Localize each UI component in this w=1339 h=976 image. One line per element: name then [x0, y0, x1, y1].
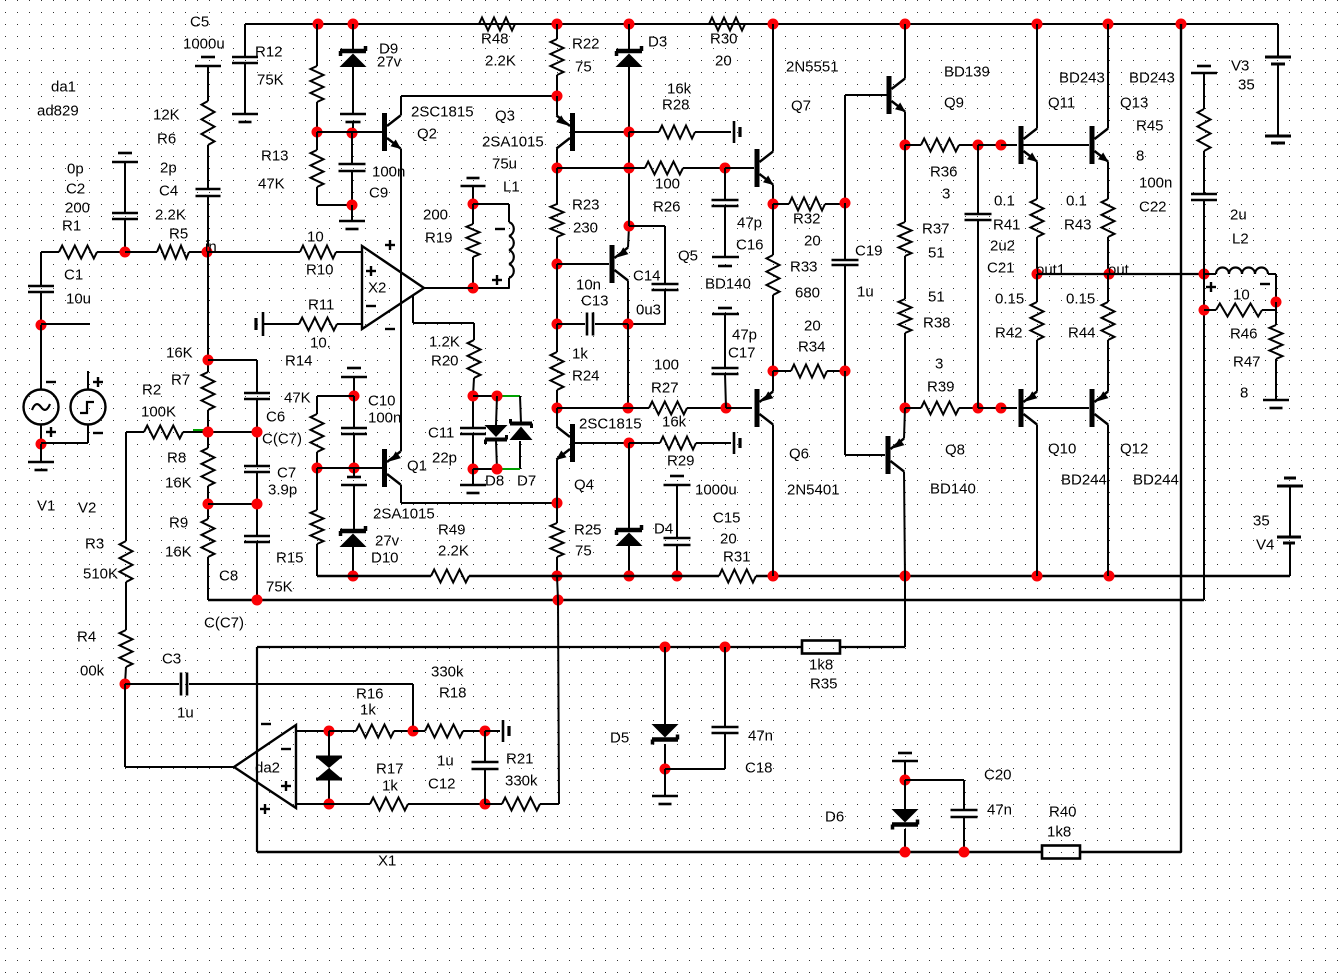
node C6/C7 — [252, 427, 263, 438]
terminal cap R28 — [734, 121, 740, 143]
junction top rail / R22 — [552, 19, 563, 30]
wire D8 top link — [473, 395, 497, 397]
wire D7 bottom lead — [519, 441, 521, 469]
minus sign da2 outer — [261, 723, 271, 725]
wire C19 top — [844, 203, 846, 260]
svg-text:0.15: 0.15 — [995, 291, 1024, 308]
label R40 — [1049, 804, 1077, 821]
svg-text:C13: C13 — [581, 293, 609, 310]
resistor R1 — [59, 246, 97, 259]
node R36/R37 — [900, 140, 911, 151]
green wire bottom — [497, 468, 520, 470]
polarized cap below D9 — [340, 114, 366, 122]
svg-text:R37: R37 — [922, 221, 950, 238]
value 0u3 — [636, 302, 661, 319]
svg-text:BD140: BD140 — [930, 481, 976, 498]
wire in node down — [207, 252, 209, 372]
value 2.2K R48 — [485, 53, 516, 70]
label 2SA1015 Q1 — [373, 506, 435, 523]
wire right drop — [1180, 24, 1182, 852]
label R35 — [810, 676, 838, 693]
resistor R4 — [120, 630, 133, 667]
label C17 — [728, 345, 756, 362]
label R42 — [995, 325, 1023, 342]
resistor R3 — [120, 541, 133, 582]
svg-text:75: 75 — [575, 59, 592, 76]
value 75K — [257, 72, 284, 89]
svg-text:75u: 75u — [492, 156, 517, 173]
value 20 R32 — [804, 233, 821, 250]
value 330k R18 — [431, 664, 464, 681]
wire D5 lead — [664, 647, 666, 724]
svg-text:R49: R49 — [438, 522, 466, 539]
wire node to R39 — [905, 407, 921, 409]
svg-text:R39: R39 — [927, 379, 955, 396]
resistor R26 — [645, 162, 683, 175]
wire C20 bottom — [963, 817, 965, 852]
svg-text:1000u: 1000u — [183, 36, 225, 53]
wire to terminal — [485, 730, 500, 732]
wire node to R13 — [316, 132, 318, 150]
wire C5 to R6 — [207, 66, 209, 101]
node Q1/Q4 — [552, 498, 563, 509]
wire R33 top — [772, 204, 774, 255]
resistor R29 — [660, 437, 696, 450]
node in — [202, 247, 213, 258]
transistor Q2 2SC1815 — [382, 113, 401, 151]
node Q12/rail — [1104, 571, 1115, 582]
wire Q2 emitter down — [400, 149, 402, 451]
capacitor C4 — [196, 189, 221, 196]
wire stub right of node — [41, 323, 90, 325]
resistor R8 — [202, 448, 215, 486]
svg-text:R7: R7 — [171, 372, 190, 389]
value 3.9p — [268, 482, 297, 499]
wire Q1 emitter down — [400, 485, 402, 504]
node R25/rail — [552, 571, 563, 582]
wire X2 output — [424, 287, 473, 289]
capacitor C16 — [712, 200, 739, 206]
polarized cap C10 top — [341, 368, 367, 377]
svg-text:Q1: Q1 — [407, 458, 427, 475]
wire C18 to D5 — [665, 768, 725, 770]
svg-text:R22: R22 — [572, 36, 600, 53]
wire R22 to Q3 — [556, 75, 558, 96]
wire R46 to R47 — [1275, 302, 1277, 325]
capacitor C7 — [244, 466, 270, 472]
capacitor C3 — [181, 673, 187, 696]
label da1 — [51, 79, 76, 96]
resistor R25 — [551, 523, 564, 557]
wire D8 lead — [496, 396, 497, 425]
svg-text:D10: D10 — [371, 550, 399, 567]
resistor R31 — [719, 570, 756, 583]
capacitor C18 — [712, 727, 739, 733]
svg-text:V2: V2 — [78, 500, 96, 517]
value 47K R14 — [284, 390, 311, 407]
svg-text:R5: R5 — [169, 226, 188, 243]
label out — [1108, 262, 1130, 279]
wire top supply rail — [245, 23, 1278, 25]
svg-text:2.2K: 2.2K — [438, 543, 469, 560]
wire C17 bottom — [725, 374, 726, 408]
svg-text:100: 100 — [655, 176, 680, 193]
plus sign V1 bottom — [46, 427, 56, 437]
value 200 R19 — [423, 207, 448, 224]
transistor Q9 BD139 — [887, 76, 906, 114]
label Q5 — [678, 248, 698, 265]
label Q12 — [1120, 441, 1148, 458]
node R24/R27 — [552, 403, 563, 414]
svg-text:47K: 47K — [284, 390, 311, 407]
label BD140 mid — [705, 276, 751, 293]
label R5 — [169, 226, 188, 243]
svg-text:Q10: Q10 — [1048, 441, 1076, 458]
label 12K — [153, 107, 180, 124]
svg-text:51: 51 — [928, 289, 945, 306]
wire node to ground — [472, 469, 474, 485]
svg-text:22p: 22p — [432, 450, 457, 467]
label R43 — [1064, 217, 1092, 234]
label R37 — [922, 221, 950, 238]
wire R46 right lead — [1262, 309, 1276, 311]
value 10 R46 — [1233, 287, 1250, 304]
node Q3 collector — [552, 163, 563, 174]
svg-text:330k: 330k — [431, 664, 464, 681]
node D6 top — [900, 775, 911, 786]
label R48 — [481, 31, 509, 48]
svg-text:D4: D4 — [654, 521, 673, 538]
wire R3 to R4 — [125, 582, 127, 630]
terminal cap R29 — [734, 432, 740, 454]
svg-text:10u: 10u — [66, 291, 91, 308]
green net mark — [193, 429, 204, 431]
value 8 R45 — [1136, 148, 1144, 165]
svg-text:75K: 75K — [257, 72, 284, 89]
wire Q4 base — [575, 442, 629, 444]
svg-text:3.9p: 3.9p — [268, 482, 297, 499]
label L2 — [1232, 231, 1249, 248]
svg-text:R25: R25 — [574, 522, 602, 539]
value 47n C18 — [748, 728, 773, 745]
wire Q13 emitter — [1107, 162, 1109, 200]
wire C20 lead — [963, 780, 965, 810]
wire Q9 base link — [845, 94, 887, 96]
label R24 — [572, 368, 600, 385]
svg-text:R3: R3 — [85, 536, 104, 553]
node R46 left — [1199, 305, 1210, 316]
svg-text:R34: R34 — [798, 339, 826, 356]
wire rail to R12 — [316, 24, 318, 66]
label X1 — [378, 853, 396, 870]
wire Q11-Q13 base link — [1022, 144, 1089, 146]
wire R13 hook down — [316, 187, 318, 205]
svg-text:R14: R14 — [285, 353, 313, 370]
svg-text:R43: R43 — [1064, 217, 1092, 234]
value 0.1 R43 — [1066, 193, 1087, 210]
svg-text:8: 8 — [1136, 148, 1144, 165]
transistor Q1 2SA1015 — [382, 449, 401, 487]
inductor L1 — [509, 222, 514, 278]
wire C12 bottom — [484, 769, 486, 804]
zener diode D3 — [616, 46, 643, 67]
wire V2 to V1 node — [41, 442, 88, 444]
node C16/Q7 base — [720, 163, 731, 174]
wire R8 to R9 — [207, 486, 209, 519]
svg-text:20: 20 — [804, 233, 821, 250]
wire to R17 — [329, 803, 370, 805]
label C18 — [745, 760, 773, 777]
label C8 — [219, 568, 238, 585]
svg-text:2SC1815: 2SC1815 — [579, 416, 642, 433]
label R20 — [431, 353, 459, 370]
diode pair bowtie — [316, 757, 342, 779]
svg-text:35: 35 — [1253, 513, 1270, 530]
value 75u — [492, 156, 517, 173]
svg-text:R38: R38 — [923, 315, 951, 332]
wire to Q10 base node — [978, 407, 1001, 409]
resistor R38 — [899, 299, 912, 333]
wire R23 top — [556, 168, 558, 204]
svg-text:R31: R31 — [723, 549, 751, 566]
wire Q10 collector — [1036, 425, 1038, 577]
resistor R11 — [299, 318, 337, 331]
transistor Q5 — [610, 245, 629, 283]
wire node to R34 — [773, 370, 791, 372]
wire corner down to R16 node — [412, 684, 414, 731]
value 27v D9 — [377, 54, 402, 71]
wire Q4 collector — [556, 408, 558, 427]
wire Q6 collector down — [772, 425, 774, 577]
transistor Q11 BD243 — [1019, 126, 1038, 164]
wire rail corner down — [244, 24, 246, 56]
svg-text:out1: out1 — [1036, 262, 1065, 279]
capacitor C11 — [460, 428, 486, 434]
svg-text:2SC1815: 2SC1815 — [411, 104, 474, 121]
wire rail to D9 — [352, 24, 354, 50]
source V2 step — [71, 390, 106, 425]
resistor R16 — [356, 725, 394, 738]
label C12 — [428, 776, 456, 793]
value 75 R22 — [575, 59, 592, 76]
svg-text:10: 10 — [307, 229, 324, 246]
label C4 — [159, 183, 178, 200]
capacitor C13 — [587, 313, 593, 336]
node X2 output — [468, 283, 479, 294]
svg-text:R36: R36 — [930, 164, 958, 181]
wire R34 to column — [827, 370, 845, 372]
svg-text:16k: 16k — [662, 414, 687, 431]
svg-text:R19: R19 — [425, 230, 453, 247]
label 2p — [160, 160, 177, 177]
wire R9 node to C8 node — [208, 503, 257, 505]
minus sign X2 inner — [366, 305, 376, 307]
node D8 bottom — [492, 464, 503, 475]
svg-text:0p: 0p — [67, 161, 84, 178]
node V1 top — [36, 320, 47, 331]
capacitor at rail left end — [232, 57, 258, 63]
svg-text:200: 200 — [423, 207, 448, 224]
label 2N5551 — [786, 59, 839, 76]
svg-text:1000u: 1000u — [695, 482, 737, 499]
value 20 R34 — [804, 318, 821, 335]
svg-text:D5: D5 — [610, 730, 629, 747]
wire node to C9 — [351, 133, 353, 164]
wire node to ground — [664, 769, 666, 796]
label D5 — [610, 730, 629, 747]
svg-text:3: 3 — [942, 186, 950, 203]
wire column down — [844, 95, 846, 203]
battery V4 — [1277, 478, 1303, 543]
value 1u C19 — [857, 284, 874, 301]
wire R27 to Q6 node — [687, 407, 726, 409]
label R3 — [85, 536, 104, 553]
svg-text:0.1: 0.1 — [1066, 193, 1087, 210]
wire bowtie bottom lead — [328, 779, 330, 804]
wire Q2 collector up — [400, 96, 402, 116]
value 75 R25 — [575, 543, 592, 560]
svg-text:R17: R17 — [376, 761, 404, 778]
node D8 top — [492, 391, 503, 402]
label R22 — [572, 36, 600, 53]
node C10/Q1 base — [349, 463, 360, 474]
plus sign L2 — [1206, 282, 1216, 292]
resistor R9 — [202, 519, 215, 557]
wire bowtie top lead — [328, 731, 330, 757]
wire rail to D3 — [628, 24, 630, 50]
resistor R34 — [791, 365, 827, 378]
resistor R48 — [479, 18, 515, 31]
wire R36 to C21 — [959, 144, 978, 146]
svg-text:47p: 47p — [732, 327, 757, 344]
label BD140 Q8 — [930, 481, 976, 498]
node C8/rail — [252, 595, 263, 606]
svg-text:20: 20 — [804, 318, 821, 335]
svg-text:2p: 2p — [160, 160, 177, 177]
node R12/R13/base — [312, 127, 323, 138]
svg-text:1k8: 1k8 — [809, 657, 833, 674]
value 0.15 R44 — [1066, 291, 1095, 308]
wire R11 to X2 — [337, 323, 362, 325]
svg-text:BD243: BD243 — [1059, 70, 1105, 87]
wire Q3 collector down — [556, 149, 558, 169]
label BD139 — [944, 64, 990, 81]
value 1k R16 — [360, 702, 376, 719]
wire L1 top lead — [508, 204, 510, 222]
capacitor C12 — [472, 762, 499, 769]
value 51 R37 — [928, 245, 945, 262]
wire C17 body — [724, 314, 726, 368]
zener diode D6 — [892, 809, 919, 830]
svg-text:X1: X1 — [378, 853, 396, 870]
label R8 — [167, 450, 186, 467]
value 51 R38 — [928, 289, 945, 306]
svg-text:Q6: Q6 — [789, 446, 809, 463]
wire node to R32 — [773, 203, 789, 205]
svg-text:2SA1015: 2SA1015 — [482, 134, 544, 151]
wire R23 bottom — [556, 237, 558, 264]
resistor R37 — [899, 222, 912, 256]
wire C8 to rail — [256, 542, 258, 600]
wire Q11 collector — [1036, 24, 1038, 129]
node D3/R28 — [624, 127, 635, 138]
wire bars to D10 — [353, 485, 355, 530]
svg-text:100: 100 — [654, 357, 679, 374]
value 2.2K R49 — [438, 543, 469, 560]
wire to Q11 base node — [978, 144, 1001, 146]
wire C21 body top — [977, 145, 979, 214]
terminal cap C12 — [503, 720, 509, 742]
wire R24 bottom — [556, 390, 558, 408]
label R7 — [171, 372, 190, 389]
junction top rail / right drop — [1176, 19, 1187, 30]
node C11 bottom — [468, 464, 479, 475]
node D10/rail — [348, 571, 359, 582]
label D6 — [825, 809, 844, 826]
label Q4 — [574, 477, 594, 494]
node C15/rail — [672, 571, 683, 582]
wire Q5 lower to R27 node — [627, 324, 629, 408]
plus sign da2 inner — [281, 781, 291, 791]
resistor R7 — [202, 372, 215, 410]
minus sign L1 — [495, 228, 505, 230]
resistor R5 — [157, 246, 189, 259]
ground under C11 — [460, 485, 486, 493]
junction top rail / Q9 collector — [900, 19, 911, 30]
wire R17 to C12 node — [408, 803, 485, 805]
wire bars to node — [472, 186, 474, 204]
wire X1 bottom edge right — [1080, 851, 1181, 853]
svg-text:da1: da1 — [51, 79, 76, 96]
box resistor R40 — [1042, 846, 1080, 859]
wire out node down — [1203, 274, 1205, 310]
wire da2 minus input — [296, 730, 329, 732]
label 0p — [67, 161, 84, 178]
wire V4 to rail — [1289, 543, 1291, 576]
wire da2 plus input — [296, 803, 329, 805]
wire node to V1 — [40, 325, 42, 389]
label R25 — [574, 522, 602, 539]
value 22p — [432, 450, 457, 467]
node C17/Q6 base — [721, 403, 732, 414]
minus sign X2 outer — [385, 328, 395, 330]
resistor R32 — [789, 198, 825, 211]
svg-text:C21: C21 — [987, 260, 1015, 277]
wire Q8 upper — [904, 408, 905, 439]
label C13 — [581, 293, 609, 310]
label BD244 Q12 — [1133, 472, 1179, 489]
polarized cap C15 top — [664, 476, 691, 485]
capacitor C22 — [1191, 194, 1217, 200]
label C(C7) — [262, 431, 302, 448]
resistor R44 — [1102, 302, 1115, 340]
svg-text:230: 230 — [573, 220, 598, 237]
junction top rail / D3 — [624, 19, 635, 30]
resistor R18 — [425, 725, 463, 738]
label R45 — [1136, 118, 1164, 135]
zener diode D10 — [340, 526, 367, 547]
svg-text:V4: V4 — [1256, 537, 1274, 554]
wire Q6 emitter up — [772, 371, 774, 392]
node Q2 base — [347, 128, 358, 139]
label D10 — [371, 550, 399, 567]
wire Q5 base — [557, 263, 609, 265]
value 2u L2 — [1230, 207, 1247, 224]
wire C7 to C8 — [256, 472, 258, 536]
svg-text:Q4: Q4 — [574, 477, 594, 494]
wire to da2 apex — [125, 766, 234, 768]
svg-text:20: 20 — [715, 53, 732, 70]
